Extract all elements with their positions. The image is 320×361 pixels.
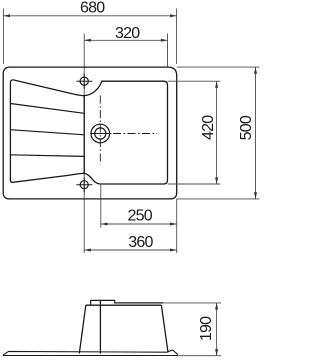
svg-text:500: 500 [238, 115, 255, 140]
side view vertical line (drain axis) [99, 300, 101, 353]
drain centerline horizontal [90, 133, 111, 135]
extension line 420 bottom (bowl bottom edge extended) [168, 183, 221, 185]
extension line 680 left [2, 9, 4, 65]
side view bowl trapezoid right edge [161, 305, 168, 352]
dimension line 360 [84, 249, 177, 251]
extension line 190 top [163, 302, 221, 304]
side view base plate [3, 350, 177, 356]
extension line 500 bottom (sink bottom edge extended) [177, 198, 260, 200]
side view drain ledge on top [91, 300, 163, 305]
svg-text:680: 680 [80, 0, 105, 16]
dimension line 420 [216, 81, 218, 184]
svg-text:360: 360 [128, 234, 153, 251]
inner working area outline: drainer + bowl combined [10, 80, 167, 184]
dimension line 500 [255, 67, 257, 199]
drain hole outer circle [91, 124, 110, 143]
drain hole inner circle [95, 128, 106, 139]
dimension line 190 [216, 303, 218, 356]
dimension line 680 [3, 15, 176, 17]
extension line 680 right [176, 9, 178, 65]
extension line right edge extended down [176, 199, 178, 253]
tap hole bottom [80, 181, 88, 189]
drainer rib 2 [10, 104, 84, 114]
drainer rib 3 [10, 130, 84, 135]
extension line 320 right [167, 34, 169, 67]
centerline vertical through tap holes / bowl left edge extension [83, 34, 85, 254]
extension line 500 top (sink top edge extended) [177, 66, 260, 68]
sink outer rim rounded rect [3, 67, 177, 199]
extension line 420 top (bowl top edge extended) [168, 80, 221, 82]
bowl left edge [83, 96, 85, 174]
dimension line 250 [101, 223, 177, 225]
drain centerline vertical [99, 96, 101, 165]
extension line 190 bottom [178, 355, 221, 357]
svg-text:190: 190 [198, 316, 215, 341]
extension line 250 left (drain centerline extended down) [100, 184, 102, 228]
tap hole top [80, 77, 88, 85]
dimension line 320 [84, 39, 167, 41]
side view bowl trapezoid left edge [79, 305, 86, 353]
drainer rib 4 [10, 155, 84, 157]
side view bowl trapezoid top edge [86, 304, 162, 306]
svg-text:250: 250 [128, 208, 153, 225]
svg-text:320: 320 [115, 25, 140, 42]
svg-text:420: 420 [200, 115, 217, 140]
